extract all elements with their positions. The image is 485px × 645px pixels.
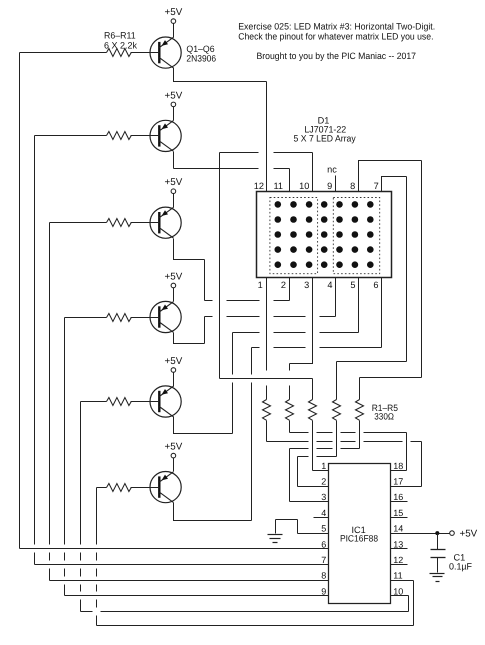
svg-text:6: 6: [321, 539, 326, 549]
wire +5V to Q6 emitter: [173, 458, 175, 472]
svg-text:2N3906: 2N3906: [186, 53, 216, 63]
wire R4 to IC1 pin 2: [298, 421, 337, 487]
wire D1 pin 2 descender (to Q3): [289, 278, 291, 301]
svg-text:13: 13: [393, 539, 403, 549]
wire IC1 pin 10 wrap-around to Q5 base line: [81, 596, 409, 612]
D1 right digit dashed outline: [333, 198, 379, 274]
wire IC1 pin 7 to Q2 base resistor: [35, 136, 107, 565]
wire R7 to Q2 base: [131, 135, 160, 137]
svg-text:12: 12: [254, 181, 264, 191]
label R1-R5 330ohm: [372, 403, 398, 421]
wire D1 pin 3 to R2 (jog left): [290, 278, 313, 400]
wire R2 to IC1 pin 18: [290, 421, 407, 471]
svg-text:3: 3: [304, 280, 309, 290]
D1 pin 9 nc stub: [335, 176, 337, 192]
wire D1 pin 6 descender (to Q6): [381, 278, 383, 348]
svg-text:5: 5: [350, 280, 355, 290]
resistor R2 330ohm: [286, 400, 294, 421]
svg-text:5 X 7 LED Array: 5 X 7 LED Array: [294, 134, 356, 144]
+5V supply terminal for Q5: [165, 356, 183, 372]
svg-text:1: 1: [321, 461, 326, 471]
svg-text:2: 2: [321, 477, 326, 487]
label C1 0.1uF: [449, 552, 472, 571]
D1 left digit dashed outline: [270, 198, 318, 274]
resistor R1 330ohm: [263, 400, 271, 421]
svg-text:+5V: +5V: [165, 356, 183, 367]
wire segment to IC1 pin 6: [20, 548, 329, 550]
wire D1 pin 10 to R3 (long left/down route): [220, 153, 313, 400]
IC1 pin 16 stub lead: [391, 501, 408, 503]
wire D1 pin 8 to R5 (right-side route): [359, 161, 422, 400]
wire segment to IC1 pin 7: [35, 564, 329, 566]
svg-text:9: 9: [327, 181, 332, 191]
svg-text:8: 8: [321, 571, 326, 581]
svg-text:0.1µF: 0.1µF: [449, 561, 472, 571]
svg-text:7: 7: [321, 555, 326, 565]
wire R5 to IC1 pin 3: [290, 421, 360, 502]
wire Q5 collector to D1 pin 5: [174, 333, 359, 434]
svg-text:+5V: +5V: [165, 442, 183, 453]
wire IC1 pin 11 wrap-around to Q6 base line: [97, 581, 414, 626]
svg-text:8: 8: [350, 181, 355, 191]
resistor R4 330ohm: [333, 400, 341, 421]
wire IC1 pin 5 to ground: [276, 520, 329, 534]
title text block: [238, 21, 435, 60]
ground symbol at IC1 pin 5: [268, 535, 283, 543]
resistor R11 2.2k (base of Q6): [107, 484, 132, 492]
wire Q6 collector to D1 pin 6: [174, 348, 382, 521]
svg-text:15: 15: [393, 508, 403, 518]
svg-text:+5V: +5V: [165, 7, 183, 18]
resistor R5 330ohm: [356, 400, 364, 421]
wire IC1 pin 11 to Q6 base resistor: [97, 488, 107, 626]
D1 LED dot matrix 7 x 5: [275, 201, 374, 268]
transistor Q2 2N3906 (PNP): [150, 120, 181, 151]
resistor R7 2.2k (base of Q2): [107, 132, 132, 140]
label Q1-Q6 2N3906: [186, 44, 216, 64]
+5V supply terminal for Q3: [165, 177, 183, 193]
wire R9 to Q4 base: [131, 317, 160, 319]
IC1 pin 12 stub lead: [391, 564, 408, 566]
wire R11 to Q6 base: [131, 487, 160, 489]
resistor R10 2.2k (base of Q5): [107, 398, 132, 406]
svg-text:1: 1: [258, 280, 263, 290]
svg-text:11: 11: [273, 181, 283, 191]
wire +5V to Q2 emitter: [173, 107, 175, 121]
resistor R6 2.2k (base of Q1): [107, 49, 132, 57]
svg-text:11: 11: [393, 571, 402, 581]
label R6-R11 6 X 2.2k: [104, 31, 137, 51]
svg-text:9: 9: [321, 586, 326, 596]
junction node at C1: [435, 531, 439, 535]
svg-text:7: 7: [374, 181, 379, 191]
svg-text:Q1–Q6: Q1–Q6: [186, 44, 214, 54]
label D1 LJ7071-22 5x7 LED Array: [294, 116, 356, 144]
svg-text:+5V: +5V: [165, 90, 183, 101]
capacitor C1 0.1uF: [431, 550, 446, 573]
wire +5V to Q4 emitter: [173, 288, 175, 302]
resistor R9 2.2k (base of Q4): [107, 314, 132, 322]
svg-text:10: 10: [393, 586, 403, 596]
+5V supply terminal for Q4: [165, 272, 183, 288]
wire Q1 collector to D1 pin 12: [174, 68, 267, 192]
svg-text:Brought to you by the PIC Mani: Brought to you by the PIC Maniac -- 2017: [257, 51, 417, 61]
wire R1 to IC1 pin 17: [267, 421, 422, 487]
svg-text:6 X 2.2k: 6 X 2.2k: [104, 40, 137, 50]
IC1 pin 15 stub lead: [391, 517, 408, 519]
wire IC1 pin 14 to +5V: [391, 533, 450, 535]
svg-text:R6–R11: R6–R11: [104, 31, 136, 41]
wire R10 to Q5 base: [131, 401, 160, 403]
+5V supply terminal for Q1: [165, 7, 183, 23]
resistor R8 2.2k (base of Q3): [107, 219, 132, 227]
wire IC1 pin 6 to Q1 base resistor: [20, 53, 107, 549]
svg-text:10: 10: [299, 181, 309, 191]
wire IC1 pin 9 to Q4 base resistor: [65, 318, 107, 596]
svg-text:+5V: +5V: [165, 177, 183, 188]
transistor Q6 2N3906 (PNP): [150, 472, 181, 503]
label IC1 PIC16F88: [340, 525, 378, 544]
wire R8 to Q3 base: [131, 222, 160, 224]
wire R6 to Q1 base: [131, 52, 160, 54]
svg-text:18: 18: [393, 461, 403, 471]
svg-text:3: 3: [321, 492, 326, 502]
svg-text:4: 4: [321, 508, 326, 518]
+5V terminal at IC1 pin 14: [450, 528, 478, 539]
wire Q2 collector to D1 pin 11: [174, 152, 290, 192]
transistor Q1 2N3906 (PNP): [150, 37, 181, 68]
svg-text:330Ω: 330Ω: [374, 411, 394, 421]
wire +5V to Q5 emitter: [173, 373, 175, 387]
svg-text:4: 4: [327, 280, 332, 290]
svg-text:PIC16F88: PIC16F88: [340, 533, 378, 543]
IC1 pin 4 stub lead: [314, 517, 329, 519]
wire +5V to Q1 emitter: [173, 24, 175, 38]
wire D1 pin 1 to R1: [266, 278, 268, 400]
svg-text:5: 5: [321, 524, 326, 534]
svg-text:nc: nc: [327, 164, 337, 174]
wire +5V to Q3 emitter: [173, 194, 175, 208]
wire D1 pin 4 descender (to Q4): [335, 278, 337, 317]
+5V supply terminal for Q2: [165, 90, 183, 106]
svg-text:6: 6: [373, 280, 378, 290]
resistor R3 330ohm: [309, 400, 317, 421]
wire D1 pin 5 descender (to Q5): [358, 278, 360, 333]
wire segment to IC1 pin 8: [50, 580, 329, 582]
wire segment to IC1 pin 9: [65, 595, 329, 597]
svg-text:Check the pinout for whatever: Check the pinout for whatever matrix LED…: [238, 31, 433, 41]
wire IC1 pin 8 to Q3 base resistor: [50, 223, 107, 581]
transistor Q3 2N3906 (PNP): [150, 207, 181, 238]
svg-text:16: 16: [393, 492, 403, 502]
wire Q3 collector to D1 pin 2: [174, 239, 290, 301]
wire IC1 pin 10 to Q5 base resistor: [81, 402, 107, 612]
IC1 pin 13 stub lead: [391, 548, 408, 550]
svg-text:12: 12: [393, 555, 403, 565]
svg-text:+5V: +5V: [460, 528, 478, 539]
svg-text:+5V: +5V: [165, 272, 183, 283]
transistor Q4 2N3906 (PNP): [150, 301, 181, 332]
ground symbol below C1: [430, 574, 445, 582]
+5V supply terminal for Q6: [165, 442, 183, 458]
wire R3 to IC1 pin 1: [313, 421, 329, 471]
svg-text:Exercise 025: LED Matrix #3: H: Exercise 025: LED Matrix #3: Horizontal …: [238, 21, 435, 31]
wire D1 pin 7 to R4 (right-side route): [337, 177, 407, 400]
wire Q4 collector to D1 pin 4: [174, 317, 336, 344]
svg-text:2: 2: [281, 280, 286, 290]
svg-text:14: 14: [393, 524, 403, 534]
svg-text:17: 17: [393, 477, 403, 487]
IC1 PIC16F88 body: [329, 464, 391, 604]
wire junction to C1: [437, 534, 439, 550]
transistor Q5 2N3906 (PNP): [150, 386, 181, 417]
LED matrix D1 outer body: [257, 192, 392, 278]
